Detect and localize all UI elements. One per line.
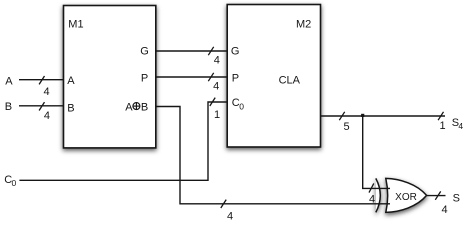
svg-text:4: 4 [44, 110, 50, 122]
svg-text:4: 4 [369, 194, 375, 206]
M1 pin label A xor B [125, 101, 148, 113]
bus slash input B [39, 102, 50, 122]
bus slash P (4) [208, 73, 219, 93]
wire: input A to M1 [5, 75, 63, 87]
svg-text:CLA: CLA [279, 75, 301, 87]
M2 pin label C0 [232, 97, 245, 111]
svg-text:A: A [5, 75, 13, 87]
wire: M2 sum output bus to S4 [320, 115, 445, 117]
wire: input B to M1 [5, 101, 63, 113]
svg-text:G: G [140, 45, 149, 57]
wire: XOR output to S [427, 195, 446, 197]
bus slash G (4) [208, 47, 220, 67]
svg-text:1: 1 [439, 120, 445, 132]
xor gate U1 [376, 178, 427, 212]
svg-text:G: G [231, 46, 240, 58]
svg-text:B: B [5, 101, 12, 113]
module M1 box [64, 6, 156, 148]
svg-text:P: P [141, 73, 148, 85]
wire: A xor B net from M1 down to XOR input [156, 107, 390, 204]
svg-text:1: 1 [214, 109, 220, 121]
svg-text:4: 4 [458, 121, 463, 131]
module M2 (CLA) box [227, 5, 320, 148]
svg-text:B: B [67, 103, 74, 115]
wire: P net M1 to M2 [156, 76, 227, 78]
svg-text:S: S [453, 193, 460, 205]
svg-text:0: 0 [12, 178, 17, 188]
svg-text:M1: M1 [68, 18, 83, 30]
bus slash 4 on S output [435, 191, 447, 216]
svg-text:4: 4 [213, 80, 219, 92]
svg-text:A: A [125, 101, 133, 113]
bus slash 4 on XOR top input [369, 183, 375, 205]
svg-text:4: 4 [214, 55, 220, 67]
svg-text:4: 4 [227, 210, 233, 222]
bus slash input A [39, 76, 50, 98]
svg-text:4: 4 [44, 86, 50, 98]
wire: G net M1 to M2 [156, 50, 227, 52]
svg-text:4: 4 [442, 204, 448, 216]
svg-text:0: 0 [239, 102, 244, 112]
junction dot on sum bus [361, 114, 364, 117]
wire: C0 input net to M2 [4, 102, 226, 188]
bus slash C0 (1) [210, 98, 220, 121]
bus slash 5 [339, 112, 349, 133]
bus slash A xor B (4) [221, 200, 233, 223]
wire: branch from sum bus down to XOR top input [363, 116, 390, 188]
svg-text:P: P [232, 72, 239, 84]
node label S4 [452, 117, 464, 131]
svg-text:XOR: XOR [395, 192, 417, 203]
bus slash 1 to S4 [438, 112, 445, 132]
svg-text:5: 5 [343, 121, 349, 133]
svg-text:B: B [141, 101, 148, 113]
svg-text:M2: M2 [296, 19, 311, 31]
svg-text:A: A [67, 75, 75, 87]
